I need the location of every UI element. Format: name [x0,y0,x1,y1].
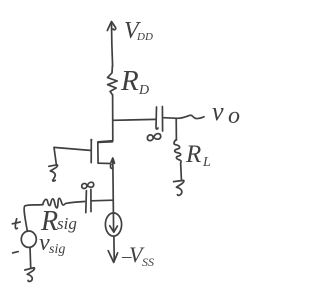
svg-text:v: v [212,97,224,126]
power -VSS arrow [108,251,117,263]
svg-text:DD: DD [136,31,153,43]
svg-text:D: D [138,83,149,98]
label Rsig [40,206,77,237]
ground vsig [25,268,35,282]
power VDD arrow [107,22,115,67]
svg-text:sig: sig [57,214,77,233]
wire RL to ground [180,164,183,179]
current source I [105,213,121,236]
label infinity C2 [82,182,94,188]
wire drain node to C1 [113,118,155,121]
source vsig (signal source) [21,231,36,247]
label VDD [124,18,153,44]
svg-text:o: o [228,103,240,129]
wire C2 to source node [92,199,113,202]
svg-text:sig: sig [49,242,65,257]
wire current source to VSS [113,236,115,259]
wire source to current source [112,159,115,232]
label + [12,219,20,229]
svg-text:L: L [202,155,211,170]
label - [13,252,19,253]
ground gate [49,165,58,181]
resistor RD [108,66,118,95]
label -VSS [121,242,154,269]
wire Rsig to vsig [24,205,43,232]
wire Rsig to C2 [66,202,84,204]
label vsig [39,230,65,257]
wire vsig to ground [29,247,32,267]
capacitor C1 (output coupling) [156,107,163,132]
ground RL [174,180,184,195]
capacitor C2 (input coupling) [86,189,91,212]
wire gate to ground [54,147,90,164]
label RL [185,141,211,170]
label RD [120,65,149,98]
resistor RL [174,140,181,165]
label vO [212,97,240,129]
wire output node to RL [175,119,177,141]
svg-text:SS: SS [142,255,154,269]
wire C1 to output [163,115,204,118]
resistor Rsig [43,198,67,208]
transistor Q1 (NMOS) [90,139,114,168]
wire RD to drain node [98,95,113,142]
svg-text:R: R [185,141,201,168]
svg-text:R: R [120,65,139,97]
label infinity C1 [147,134,160,141]
